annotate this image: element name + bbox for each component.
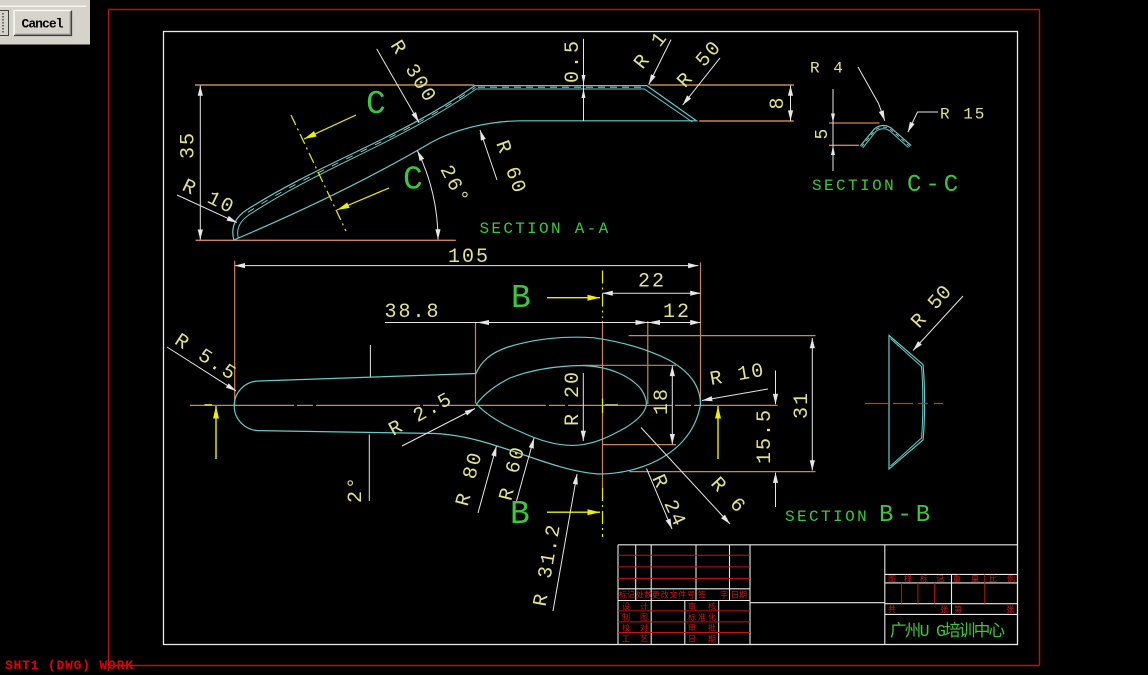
ext 105/22/12 right — [700, 263, 702, 407]
rev red row3 — [618, 577, 750, 579]
svg-text:18: 18 — [651, 387, 674, 415]
right red v3 — [934, 583, 936, 604]
right red v2 — [917, 583, 919, 604]
svg-text:C: C — [403, 162, 423, 199]
dim 18 line — [671, 366, 673, 445]
ext 31 bottom — [629, 471, 815, 473]
svg-text:35: 35 — [178, 131, 201, 159]
right h3 — [885, 603, 1018, 605]
dim 0.5 line — [583, 39, 585, 121]
white center dashes on slope — [248, 87, 476, 212]
title left edge — [617, 545, 619, 644]
svg-text:签 字: 签 字 — [698, 590, 728, 601]
B-B centerline — [865, 403, 943, 405]
dim 31 line — [811, 338, 813, 471]
sig col v — [684, 601, 686, 645]
leader R1 — [649, 40, 671, 85]
rev red row2 — [618, 566, 750, 568]
svg-text:8: 8 — [767, 95, 790, 109]
sig red row1 — [618, 610, 750, 612]
tick lower — [829, 144, 859, 146]
dim 35 line — [199, 86, 201, 240]
dim 8 line — [790, 86, 792, 121]
col v1 — [635, 545, 637, 601]
tick upper — [829, 122, 880, 124]
svg-text:B: B — [511, 280, 531, 317]
centerline dash left — [205, 404, 213, 406]
right red v1 — [901, 583, 903, 604]
section line C-C dashdot — [291, 115, 346, 231]
arch C-C inner — [863, 129, 909, 148]
dim 22 line — [603, 292, 701, 294]
leader R50 B-B — [913, 296, 963, 351]
svg-text:105: 105 — [448, 246, 490, 269]
partial left button dotted focus — [2, 13, 4, 33]
svg-text:R 15: R 15 — [940, 106, 986, 124]
ext 38.8 left — [475, 323, 477, 404]
svg-text:SECTION A-A: SECTION A-A — [480, 220, 611, 238]
B-B line center dashes — [602, 399, 604, 414]
leader R10 plan — [702, 389, 768, 401]
dim 38.8 and 12 line — [385, 322, 701, 324]
arch white dashes — [862, 127, 911, 147]
leader R31.2 — [553, 474, 577, 611]
ext 12 left — [647, 321, 649, 404]
col v2 — [650, 545, 652, 644]
col v3 — [695, 545, 697, 601]
lower datum of 8-dim — [699, 120, 793, 122]
arrow C lower — [337, 188, 389, 210]
svg-text:C-C: C-C — [907, 172, 962, 199]
right part left edge — [884, 545, 886, 644]
inner teardrop — [477, 366, 647, 446]
svg-text:22: 22 — [638, 271, 666, 294]
section arrow A left — [215, 406, 217, 459]
top datum line (left part) — [195, 84, 474, 86]
top datum line (right part) — [650, 84, 794, 86]
svg-text:12: 12 — [663, 301, 691, 324]
col v4 — [729, 545, 731, 601]
right h4 — [885, 613, 1018, 615]
ext 18 bottom — [603, 444, 677, 446]
white drawing frame — [164, 32, 1018, 645]
svg-text:2°: 2° — [345, 475, 368, 503]
svg-text:工 艺: 工 艺 — [622, 635, 648, 645]
dim 26 arc — [417, 151, 438, 240]
middle divider — [750, 602, 885, 604]
profile A-A outline — [233, 86, 697, 240]
svg-text:15.5: 15.5 — [754, 408, 777, 464]
svg-text:设 计: 设 计 — [622, 601, 648, 612]
svg-text:Cancel: Cancel — [22, 17, 64, 32]
svg-text:审 核: 审 核 — [688, 601, 716, 612]
svg-text:校 对: 校 对 — [622, 623, 648, 634]
dialog top white line — [0, 5, 86, 7]
rev red row1 — [618, 554, 750, 556]
centerline A-A horizontal — [190, 404, 778, 406]
svg-text:标准化: 标准化 — [688, 612, 716, 623]
svg-text:制 图: 制 图 — [622, 612, 648, 623]
leader R4 — [858, 67, 885, 121]
sig red row3 — [618, 632, 750, 634]
rev table white row line — [618, 588, 750, 590]
B-B cutline bottom — [602, 488, 604, 537]
dim 105 line — [235, 265, 699, 267]
B-B cutline top — [602, 271, 604, 319]
arrow B top — [547, 297, 600, 299]
arrows 38.8 — [477, 320, 660, 325]
svg-text:31: 31 — [791, 391, 814, 419]
ext 31 top — [629, 335, 816, 337]
svg-text:更改文件号: 更改文件号 — [652, 590, 695, 601]
cancel button face — [14, 11, 72, 36]
svg-text:日 期: 日 期 — [688, 635, 716, 645]
sig col v2 — [718, 601, 720, 645]
svg-text:5: 5 — [813, 127, 833, 140]
sig red row2 — [618, 621, 750, 623]
dim 5 line — [832, 89, 834, 171]
right h2 — [885, 582, 1018, 584]
leader R60 plan — [517, 438, 535, 501]
dim 5 arrows — [831, 114, 835, 156]
svg-text:日期: 日期 — [731, 591, 747, 601]
dim R20 line — [582, 373, 584, 441]
svg-text:R 20: R 20 — [562, 370, 585, 426]
svg-text:SECTION: SECTION — [812, 177, 896, 195]
svg-text:0.5: 0.5 — [562, 38, 585, 83]
ext B center vertical — [602, 321, 604, 488]
svg-text:38.8: 38.8 — [385, 301, 441, 324]
ext 105 left — [234, 261, 236, 406]
svg-text:审 批: 审 批 — [688, 623, 716, 634]
B-B shape inner double — [891, 339, 923, 467]
red outer border — [109, 10, 1040, 672]
arrow C upper — [304, 115, 356, 139]
svg-text:处数: 处数 — [636, 590, 652, 601]
B-B shape outer — [889, 336, 925, 470]
profile inner double line — [238, 89, 693, 239]
right red v4 — [984, 574, 986, 603]
dialog gray panel — [0, 0, 90, 45]
svg-text:SHT1 (DWG) WORK: SHT1 (DWG) WORK — [5, 658, 133, 673]
dim 15.5 lower segment — [775, 473, 777, 507]
table right v — [749, 545, 751, 644]
dim 0.5 arrows — [582, 75, 586, 98]
svg-text:广州U G培训中心: 广州U G培训中心 — [890, 621, 1005, 641]
arch C-C outer — [860, 126, 911, 146]
outer spoon outline — [234, 337, 700, 474]
partial left button — [0, 11, 9, 36]
svg-text:SECTION: SECTION — [785, 508, 869, 526]
right h1 — [885, 573, 1018, 575]
section arrow A right — [717, 406, 719, 459]
leader R5.5 — [167, 347, 236, 391]
leader R80 — [478, 446, 497, 513]
leader R6 — [641, 428, 730, 525]
dim 2deg ext lower — [368, 435, 370, 502]
title top border — [618, 544, 1018, 546]
leader R15 — [908, 112, 938, 132]
bottom datum baseline — [196, 239, 456, 241]
leader R2.5 — [402, 409, 475, 447]
svg-text:标记: 标记 — [619, 590, 635, 601]
svg-text:R 4: R 4 — [810, 60, 845, 78]
right mid v — [951, 574, 953, 614]
ext 18 top — [583, 364, 676, 366]
leader R300 — [377, 49, 419, 122]
leader R10 section — [177, 195, 237, 223]
title red texts — [619, 574, 1015, 645]
svg-text:C: C — [366, 86, 386, 123]
cancel button 3d borders — [14, 11, 72, 36]
leader R50 top — [683, 58, 720, 105]
arrow B bottom — [547, 511, 600, 513]
dim 2deg ext upper — [369, 345, 371, 377]
svg-text:B-B: B-B — [879, 502, 934, 529]
leader R24 — [647, 469, 673, 530]
leader R60 section — [480, 130, 497, 180]
rev table header bottom — [618, 600, 750, 602]
white center dashes on flat — [478, 86, 645, 88]
dim 15.5 upper segment — [775, 371, 777, 405]
